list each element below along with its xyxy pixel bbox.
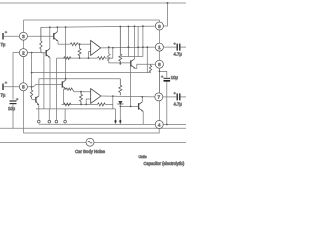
resistor R11 gain set [64, 57, 71, 60]
wire internal ground bus [36, 108, 116, 110]
wire Q2 emitter down to bus [49, 57, 51, 109]
wire Q1 emitter down [57, 41, 59, 44]
svg-text:8: 8 [158, 62, 161, 67]
wire bootstrap upper [32, 72, 151, 74]
svg-text:Units: Units [139, 155, 147, 159]
wire full width line above bottom rail [0, 127, 186, 129]
pin 8 [155, 60, 163, 68]
generator V1 car body noise source [86, 138, 94, 146]
wire Q5 emitter to pin 4 line [142, 111, 144, 124]
wire bus to feedback node [112, 104, 114, 109]
wire C4 to edge [181, 46, 186, 48]
pin 5 [19, 83, 27, 91]
svg-text:4: 4 [158, 122, 161, 127]
transistor Q3 [62, 80, 66, 89]
wire bottom ground rail right part [94, 141, 186, 143]
ground stub terminal d [64, 109, 66, 120]
transistor Q2 [46, 49, 50, 58]
wire R8 to output node [105, 96, 113, 104]
svg-text:10μ: 10μ [8, 106, 16, 111]
wire to U2 plus input [74, 91, 91, 93]
ground stub terminal b [48, 109, 50, 120]
wire mid vertical c [43, 53, 45, 109]
resistor R1 bias [40, 27, 42, 52]
pin 1 [155, 43, 163, 51]
svg-text:7μ: 7μ [1, 42, 6, 47]
wire Q5 collector up [141, 97, 143, 102]
wire pin 7 to C6 [163, 96, 177, 98]
svg-text:3: 3 [22, 34, 25, 39]
wire pin 4 right to edge [163, 124, 186, 126]
pin 7 [155, 93, 163, 101]
ground stub terminal c [55, 109, 57, 120]
wire Q4 collector to rail [133, 26, 135, 59]
wire internal Vcc rail [41, 26, 156, 27]
wire Q3 collector up to rail [65, 27, 67, 80]
resistor R6 emitter to U2 input [66, 88, 74, 92]
wire pin 8 branch to C5 [159, 68, 166, 77]
wire channel2 lower rail [62, 103, 98, 105]
wire pin 4 ground return (box bottom) [24, 128, 160, 133]
wire pin 1 to C4 [163, 46, 176, 48]
svg-text:Capacitor (electrolytic): Capacitor (electrolytic) [144, 161, 185, 166]
wire C5 down to pin4 line [166, 82, 168, 125]
wire R5 to Q6 base [32, 99, 36, 101]
wire lower rail left end down to bus [56, 58, 58, 109]
pin 4 [155, 121, 163, 129]
resistor R9 from rail down [119, 27, 122, 64]
svg-text:4.7μ: 4.7μ [174, 52, 183, 57]
svg-text:7: 7 [158, 95, 161, 100]
wire bias vertical b [142, 26, 144, 56]
svg-text:+: + [5, 80, 8, 85]
terminal e vertical [115, 109, 117, 124]
wire Q6 collector up to bootstrap lower [38, 79, 40, 96]
resistor R4 feedback [97, 57, 105, 60]
wire to Q5 base [120, 105, 138, 107]
wire Q2 collector up to rail [49, 27, 51, 48]
wire riser from top rail down to pin 9 [163, 3, 167, 26]
pin 3 [19, 32, 27, 40]
wire R2 to U1 plus input [78, 43, 90, 45]
wire pin8 to pin7 [158, 68, 160, 93]
ground stub terminal a [38, 109, 40, 120]
wire internal ground to pin 4 [39, 123, 156, 125]
IC boundary box left edge [23, 20, 25, 133]
wire Q6 emitter down to bus [38, 105, 40, 109]
svg-text:+: + [16, 97, 19, 102]
terminal f vertical [119, 106, 121, 124]
junction top rail [166, 2, 168, 4]
wire channel1 noninverting input [58, 43, 70, 45]
wire bottom ground rail left part [0, 141, 86, 143]
transistor Q1 [54, 32, 58, 41]
op-amp U2 [91, 89, 101, 104]
wire pin 2 to ripple capacitor [13, 53, 20, 100]
wire pin 5 to Q3 base [27, 84, 62, 86]
svg-text:+: + [5, 30, 8, 35]
wire U2 output to pin 7 [101, 95, 155, 98]
wire bias feed to Q4 [107, 47, 130, 63]
wire U1 output to pin 1 [101, 46, 156, 49]
resistor R3 to lower rail [78, 44, 81, 58]
wire bootstrap end down [146, 47, 148, 72]
resistor R5 from pin5 node down [30, 87, 32, 99]
wire top supply rail [0, 2, 186, 4]
transistor Q5 [139, 102, 144, 111]
wire C3 to pin 5 [4, 86, 20, 88]
wire R1 to Q2 base [41, 52, 46, 54]
wire pin2 node down [31, 53, 33, 87]
IC boundary box top edge [24, 19, 160, 21]
wire bias vertical c [137, 26, 139, 56]
wire bias lower link [120, 56, 143, 58]
resistor R8 feedback 2 [97, 103, 105, 106]
resistor R13 pin8 to bootstrap [149, 64, 151, 72]
resistor R10 right lower [119, 79, 122, 96]
wire Q4 emitter to pin 8 [135, 64, 155, 68]
wire Q3 emitter node down to lower rail2 [64, 89, 66, 105]
capacitor C3 input coupling pin 5 (cropped at left edge) [2, 84, 4, 91]
svg-text:+: + [174, 91, 177, 96]
svg-text:4.7μ: 4.7μ [174, 101, 183, 106]
pin 9 [155, 22, 163, 30]
wire R4 to output node [105, 48, 113, 58]
wire bootstrap lower [39, 78, 120, 80]
svg-text:2: 2 [22, 50, 25, 55]
svg-text:10μ: 10μ [171, 75, 179, 80]
wire pin 3 to Q1 base [27, 35, 53, 37]
wire long vertical to Q5 base [130, 67, 132, 107]
pin 2 [19, 49, 27, 57]
IC boundary box right edge [158, 20, 160, 125]
capacitor C6 output coupling [177, 93, 180, 100]
svg-text:7μ: 7μ [1, 93, 6, 98]
svg-text:5: 5 [22, 85, 25, 90]
svg-text:+: + [174, 41, 177, 46]
wire C1 to pin 3 [4, 35, 20, 37]
wire bias vertical a [127, 26, 129, 56]
capacitor C2 ripple filter [10, 101, 17, 104]
resistor R7 to feedback rail [80, 92, 83, 104]
capacitor C5 [164, 78, 171, 81]
diode D1 [117, 101, 123, 104]
wire channel1 lower rail [57, 57, 98, 59]
capacitor C1 input coupling pin 3 (cropped at left edge) [2, 33, 4, 40]
wire inverting input branch [89, 52, 91, 59]
svg-text:1: 1 [158, 45, 161, 50]
transistor Q4 [131, 59, 136, 68]
op-amp U1 [91, 40, 101, 55]
wire C2 bottom to line [12, 105, 14, 129]
resistor R2 series input [70, 43, 78, 46]
resistor R12 gain set 2 [64, 103, 71, 106]
svg-text:Car Body Noise: Car Body Noise [75, 149, 106, 154]
wire inverting input branch 2 [86, 99, 90, 104]
wire C6 to edge [181, 96, 186, 98]
wire Q1 collector to rail [56, 27, 58, 31]
capacitor C4 output coupling [177, 44, 180, 51]
wire pin 2 into box [27, 52, 44, 54]
transistor Q6 ripple filter [36, 96, 39, 105]
svg-text:9: 9 [158, 24, 161, 29]
